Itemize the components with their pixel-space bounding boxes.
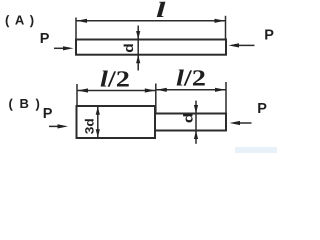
arrowhead right of dimension l xyxy=(215,19,226,23)
bar (A) xyxy=(76,40,226,55)
thick block (B) xyxy=(77,106,156,138)
arrowhead left of dimension l/2 right xyxy=(156,88,167,92)
force arrow P left (B) xyxy=(49,125,60,127)
force arrow P right (A) xyxy=(239,44,255,46)
svg-text:( A ): ( A ) xyxy=(5,13,35,28)
arrowhead left of dimension l/2 left xyxy=(78,88,89,92)
svg-text:P: P xyxy=(43,106,53,122)
dimension line l/2 left (B) xyxy=(77,90,156,92)
arrowhead up to bar bottom (A) xyxy=(136,55,140,63)
svg-text:P: P xyxy=(40,31,50,47)
diameter dimension line d (A) xyxy=(137,26,139,71)
diameter dimension line d (B) xyxy=(195,101,197,144)
force arrow P right (B) xyxy=(240,122,252,124)
svg-text:P: P xyxy=(257,101,267,117)
arrowhead right of dimension l/2 right xyxy=(215,88,226,92)
force arrow P left (A) xyxy=(54,47,65,49)
dimension extension line left (A) xyxy=(75,18,77,40)
arrowhead right of dimension l/2 left xyxy=(145,88,156,92)
svg-text:d: d xyxy=(181,113,196,124)
svg-text:l/2: l/2 xyxy=(100,67,130,92)
arrowhead down to block bottom (B) xyxy=(96,129,100,137)
extension line right (B) xyxy=(225,82,227,114)
svg-text:l/2: l/2 xyxy=(176,66,206,91)
svg-text:( B ): ( B ) xyxy=(9,96,42,111)
arrowhead down to bar top (A) xyxy=(136,31,140,39)
arrowhead up to thin bar bottom (B) xyxy=(194,131,198,139)
dimension extension line right (A) xyxy=(225,16,227,40)
svg-text:3d: 3d xyxy=(82,118,96,134)
arrowhead down to thin bar top (B) xyxy=(194,105,198,113)
diameter dimension line 3d (B) xyxy=(97,107,99,138)
svg-text:l: l xyxy=(156,0,167,22)
arrowhead up to block top (B) xyxy=(96,107,100,115)
thin bar (B) xyxy=(155,114,226,131)
extension line left (B) xyxy=(76,84,78,106)
dimension line l/2 right (B) xyxy=(156,89,226,91)
svg-text:d: d xyxy=(121,43,136,53)
dimension line l (A) xyxy=(76,20,226,22)
arrowhead left of dimension l xyxy=(77,19,88,23)
extension line middle (B) xyxy=(155,84,157,114)
svg-text:P: P xyxy=(264,28,274,44)
